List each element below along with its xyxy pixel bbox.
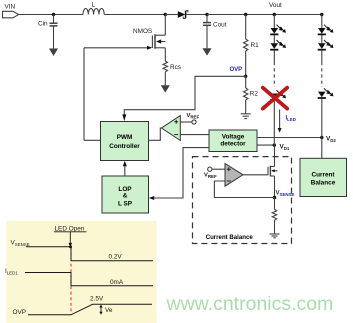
svg-text:www.cntronics.com: www.cntronics.com	[166, 293, 334, 315]
svg-text:L SP: L SP	[118, 200, 133, 207]
LED D4 open (string1 bottom)	[270, 90, 286, 100]
node VD1	[273, 143, 276, 146]
svg-text:Cout: Cout	[213, 22, 227, 29]
svg-text:Vout: Vout	[269, 2, 282, 9]
ground (Cout)	[203, 48, 212, 55]
svg-text:R2: R2	[250, 91, 259, 98]
op-amp U2 current balance	[225, 164, 243, 187]
wire voltage detector to LOP (arrow)	[149, 148, 209, 200]
LED string 2: wire from Vout	[321, 15, 323, 29]
trace OVP	[13, 295, 153, 316]
ground (Rcs)	[161, 85, 170, 92]
svg-text:ILED: ILED	[286, 116, 296, 123]
resistor Rcs	[163, 61, 181, 85]
transistor Q2 balance FET	[268, 145, 278, 197]
svg-text:PWM: PWM	[117, 134, 133, 141]
waveform panel background	[6, 221, 157, 323]
LED string 1: wire from Vout	[273, 15, 275, 29]
svg-text:Rcs: Rcs	[170, 64, 181, 71]
svg-text:L: L	[92, 2, 96, 9]
svg-text:0.2V: 0.2V	[109, 254, 123, 261]
svg-text:Controller: Controller	[109, 143, 140, 150]
svg-text:detector: detector	[220, 140, 246, 147]
block Current Balance	[300, 158, 347, 196]
wire comparator minus to voltage detector	[180, 134, 209, 136]
capacitor Cout	[203, 15, 227, 49]
ground (R2 divider)	[241, 114, 251, 119]
wire	[273, 51, 275, 62]
LED D6 (string2 second)	[318, 40, 334, 50]
block Voltage detector	[209, 130, 257, 152]
svg-text:VSENSE: VSENSE	[276, 191, 295, 198]
node drain / diode anode	[164, 13, 167, 16]
wire voltage detector to node VD2	[257, 137, 322, 139]
svg-text:&: &	[123, 193, 128, 200]
terminal VREF (comparator)	[180, 113, 199, 124]
LED D5 (string2 top)	[318, 25, 334, 35]
wire	[321, 35, 323, 43]
fault marker red X	[263, 88, 287, 109]
svg-text:OVP: OVP	[230, 67, 243, 73]
block PWM Controller	[101, 122, 149, 161]
wire comparator output to PWM	[149, 128, 162, 140]
node VSENSE	[273, 196, 277, 200]
trace VSENSE	[11, 240, 154, 261]
node VD2	[320, 136, 323, 139]
wire string1 to VD1	[273, 101, 275, 145]
ground (Cin)	[49, 49, 58, 57]
input connector VIN	[3, 4, 19, 18]
node Cin tap	[52, 13, 55, 16]
svg-text:2.5V: 2.5V	[90, 295, 104, 302]
svg-text:NMOS: NMOS	[133, 28, 152, 35]
transistor NMOS	[133, 15, 165, 62]
svg-text:OVP: OVP	[13, 309, 27, 316]
terminal VREF (op-amp)	[204, 167, 225, 179]
resistor R1	[244, 15, 260, 77]
wire input rail	[19, 14, 83, 16]
op-amp U1 OVP comparator	[162, 116, 181, 141]
arrow Ve	[99, 305, 113, 315]
svg-text:0mA: 0mA	[110, 279, 124, 286]
wire output rail	[207, 14, 322, 16]
ground (current balance)	[270, 234, 280, 238]
svg-text:Ve: Ve	[105, 307, 113, 314]
capacitor Cin	[38, 15, 58, 49]
wire voltage detector to node VD1	[257, 144, 274, 146]
wire string2 to VD2 and current balance	[321, 99, 323, 158]
block LOP & LSP	[102, 176, 149, 213]
node OVP	[244, 75, 247, 78]
wire	[321, 51, 323, 62]
wire gate drive from PWM	[84, 46, 152, 141]
wire	[273, 35, 275, 43]
wire (dashed continuation string1)	[273, 62, 275, 87]
resistor Rsense	[272, 198, 276, 234]
trace ILED1	[5, 268, 153, 286]
LED D7 (string2 bottom)	[318, 88, 334, 98]
svg-text:R1: R1	[251, 42, 260, 49]
node Cout tap	[205, 13, 208, 16]
svg-text:Balance: Balance	[311, 179, 336, 186]
svg-text:VREF: VREF	[204, 173, 217, 180]
wire OVP sense to PWM	[122, 76, 245, 121]
resistor R2	[244, 76, 259, 113]
LED D3 (string1 second)	[270, 40, 286, 50]
svg-text:VREF: VREF	[187, 113, 200, 120]
wire LOP to PWM	[123, 161, 127, 176]
svg-text:Current: Current	[311, 172, 335, 179]
svg-text:Current Balance: Current Balance	[206, 234, 254, 241]
wire feedback VSENSE to op-amp minus	[214, 181, 274, 198]
wire op-amp output to Q2 gate	[243, 174, 268, 176]
svg-text:VIN: VIN	[5, 4, 16, 11]
label LED Open	[54, 226, 87, 248]
current arrow ILED	[278, 110, 296, 133]
event marker (red dashed)	[70, 247, 72, 315]
dashed block current balance detail	[193, 157, 292, 244]
svg-text:Cin: Cin	[38, 21, 48, 28]
LED D2 (string1 top)	[270, 25, 286, 35]
inductor L	[83, 2, 104, 15]
wire inductor to drain node	[104, 14, 165, 16]
wire (dashed continuation string2)	[321, 62, 323, 87]
diode D1 schottky	[165, 11, 207, 19]
